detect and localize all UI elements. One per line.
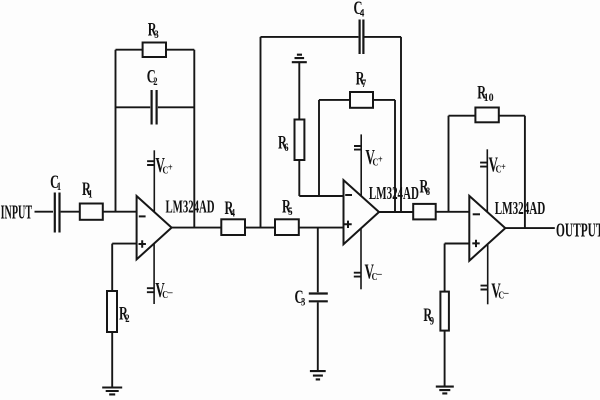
svg-text:8: 8 (426, 186, 431, 198)
svg-text:6: 6 (284, 142, 289, 154)
svg-text:10: 10 (484, 92, 494, 104)
svg-text:LM324AD: LM324AD (166, 197, 215, 217)
svg-text:7: 7 (362, 78, 367, 90)
svg-text:3: 3 (154, 29, 159, 41)
svg-text:–: – (503, 288, 510, 299)
svg-text:+: + (168, 163, 173, 174)
svg-text:LM324AD: LM324AD (495, 198, 546, 218)
svg-text:4: 4 (360, 8, 365, 20)
svg-text:3: 3 (301, 297, 306, 309)
svg-text:2: 2 (125, 313, 130, 325)
svg-text:INPUT: INPUT (1, 201, 33, 223)
svg-text:5: 5 (288, 206, 293, 218)
svg-text:1: 1 (57, 181, 62, 193)
svg-text:1: 1 (88, 189, 93, 201)
svg-text:OUTPUT: OUTPUT (556, 219, 600, 241)
svg-text:+: + (378, 155, 383, 166)
svg-text:9: 9 (430, 315, 435, 327)
svg-text:–: – (167, 288, 174, 299)
svg-text:+: + (501, 162, 506, 173)
svg-text:LM324AD: LM324AD (369, 183, 419, 203)
svg-text:–: – (376, 269, 383, 280)
svg-text:4: 4 (231, 207, 236, 219)
svg-text:2: 2 (153, 76, 158, 88)
